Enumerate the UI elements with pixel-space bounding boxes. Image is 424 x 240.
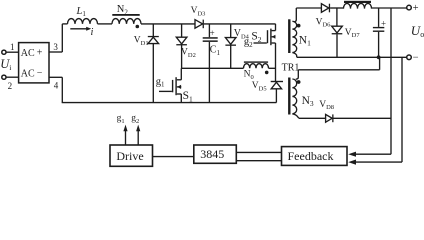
block 3845 [194,145,237,163]
winding N1 [294,8,296,22]
wire top rail [62,23,67,25]
svg-text:TR1: TR1 [282,62,300,73]
dot N0 [265,71,269,75]
bridge rectifier AC block [19,43,49,83]
svg-text:+: + [210,28,215,38]
wire N0-S2source [269,67,276,69]
svg-text:2: 2 [8,81,13,91]
svg-text:+: + [381,19,386,29]
wire output minus rail [297,56,407,58]
gate arrow g2 [137,130,139,145]
wire 3845-Feedback lower [236,160,281,162]
svg-text:+: + [37,48,43,59]
gate arrow g1 [125,130,127,145]
wire rail N2-VD3 [141,23,195,25]
diode VD7 [336,8,338,26]
wire 3845-Feedback upper [236,151,281,153]
wire VD6-L [330,7,343,9]
wire sense plus [390,8,392,154]
block Drive [110,145,153,166]
svg-text:−: − [37,68,43,79]
terminal 2 [2,75,6,79]
winding N3 [296,70,299,79]
diode VD5 [271,81,283,82]
current arrow i [70,28,87,30]
svg-text:−: − [413,52,419,63]
wire N1-VD6 [296,7,321,9]
mosfet S2 [254,42,267,44]
dot N2 [136,25,140,29]
output terminal minus [407,55,412,60]
dot N3 [297,80,301,84]
diode VD1 [152,24,154,103]
diode VD2 [181,24,183,68]
wire bottom rail [62,102,277,104]
svg-text:4: 4 [54,80,59,90]
junction dot output [377,55,381,59]
block Feedback [282,147,348,166]
dot N1 [297,24,301,28]
svg-text:3845: 3845 [200,147,224,161]
inductor L1 [68,19,98,24]
core bar lower [288,78,290,115]
terminal 1 [2,50,6,54]
output capacitor [378,8,380,27]
wire N3 runner [298,69,379,71]
wire node S1-N0 [181,67,243,69]
wire sense minus [401,57,403,162]
diode VD6 [321,4,328,13]
svg-text:1: 1 [10,42,15,52]
svg-text:AC: AC [21,68,35,79]
svg-text:Drive: Drive [116,149,143,163]
capacitor C1 [208,24,210,37]
output filter inductor [344,3,372,8]
svg-text:i: i [91,27,94,38]
winding N0 [244,64,269,69]
diode VD8 [299,117,326,119]
output terminal plus [407,5,412,10]
wire Drive-3845 [153,156,194,158]
wire rail L1-N2 [98,23,113,25]
svg-text:AC: AC [21,48,35,59]
wire rail VD3-S2 [204,23,276,25]
svg-text:3: 3 [53,42,58,52]
mosfet S1 [159,90,172,92]
winding N2 [112,19,141,24]
diode VD4 [230,24,232,68]
wire L-out [372,7,407,9]
svg-text:Feedback: Feedback [288,149,334,163]
core bar upper [288,19,290,53]
svg-text:+: + [413,3,419,14]
